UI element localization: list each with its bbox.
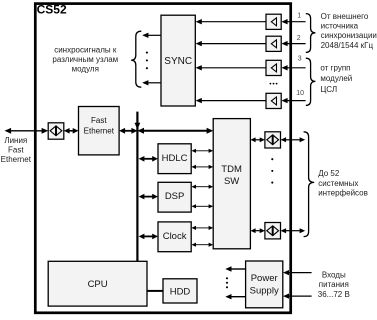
svg-text:До 52: До 52 <box>318 169 340 178</box>
block TDM SW <box>213 119 250 249</box>
brace external sync group 1-2 <box>306 14 316 53</box>
wire external sync line 3 <box>287 67 306 69</box>
svg-text:HDLC: HDLC <box>162 153 188 164</box>
svg-text:CS52: CS52 <box>37 2 67 16</box>
svg-text:HDD: HDD <box>170 286 191 297</box>
svg-text:Supply: Supply <box>250 285 279 296</box>
wire bus to DSP <box>143 196 153 198</box>
svg-text:синхронизации: синхронизации <box>321 31 377 40</box>
svg-text:DSP: DSP <box>165 191 185 202</box>
wire buffer 1 to SYNC <box>201 21 266 23</box>
svg-text:36...72 В: 36...72 В <box>318 290 350 299</box>
interface transceiver box bottom <box>265 223 281 239</box>
svg-text:модуля: модуля <box>72 64 99 73</box>
wire external sync line 1 <box>287 21 306 23</box>
svg-text:модулей: модулей <box>320 74 352 83</box>
svg-text:Входы: Входы <box>322 270 346 279</box>
wire SYNC output top <box>147 34 161 36</box>
svg-text:системных: системных <box>318 179 358 188</box>
brace system interfaces <box>304 132 315 237</box>
wire TDM SW to interface bottom <box>255 230 261 232</box>
sync input buffer box 2 <box>266 36 281 51</box>
brace sync outputs <box>131 31 141 87</box>
wire external sync line 10 <box>287 100 306 102</box>
wire TDM SW to interface top <box>255 139 261 141</box>
ellipsis dots SYNC outputs <box>146 52 148 54</box>
svg-text:синхросигналы к: синхросигналы к <box>54 46 117 55</box>
block HDD <box>163 279 197 303</box>
svg-text:10: 10 <box>296 90 304 97</box>
wire buffer 3 to SYNC <box>201 67 266 69</box>
ellipsis dots power outputs <box>226 277 228 279</box>
sync input buffer box 3 <box>266 60 281 75</box>
svg-text:Ethernet: Ethernet <box>1 155 32 164</box>
block Fast Ethernet <box>79 107 120 155</box>
wire power output bottom <box>231 296 246 298</box>
block CPU <box>48 261 147 306</box>
wire external sync line 2 <box>287 43 306 45</box>
wire bus to Clock <box>143 235 153 237</box>
wire buffer 4 to SYNC <box>201 100 266 102</box>
block Clock <box>158 222 191 252</box>
svg-text:интерфейсов: интерфейсов <box>318 189 368 198</box>
sync input buffer box 1 <box>266 14 281 29</box>
block DSP <box>158 182 191 212</box>
wire interface bottom external <box>285 230 301 232</box>
svg-text:Ethernet: Ethernet <box>84 126 115 135</box>
svg-text:3: 3 <box>298 56 302 63</box>
svg-text:от групп: от групп <box>320 64 350 73</box>
interface transceiver box top <box>265 132 281 148</box>
svg-text:SYNC: SYNC <box>164 56 192 67</box>
brace external sync group 3-10 <box>306 58 316 105</box>
module outer box CS52 <box>35 4 290 313</box>
wire Clock to TDM SW lower <box>195 244 210 246</box>
wire DSP to TDM SW upper <box>195 186 210 188</box>
wire power input bottom <box>288 295 312 297</box>
block Power Supply <box>246 261 283 308</box>
svg-text:2: 2 <box>297 35 301 42</box>
svg-text:Clock: Clock <box>163 231 187 242</box>
wire interface top external <box>285 139 301 141</box>
wire transceiver to Fast Ethernet <box>69 130 74 132</box>
wire CPU to HDD <box>147 290 163 292</box>
svg-text:2048/1544 кГц: 2048/1544 кГц <box>321 41 374 50</box>
svg-text:Power: Power <box>251 273 278 284</box>
bus down arrowhead <box>135 123 141 130</box>
block HDLC <box>158 144 191 174</box>
wire external Fast Ethernet line <box>10 130 43 132</box>
wire power output top <box>231 268 246 270</box>
wire Fast Ethernet to bus <box>124 130 132 132</box>
wire buffer 2 to SYNC <box>201 43 266 45</box>
svg-text:Линия: Линия <box>4 136 27 145</box>
bus vertical line <box>136 112 138 262</box>
svg-text:ЦСЛ: ЦСЛ <box>320 85 337 94</box>
transceiver box Fast Ethernet <box>48 123 64 139</box>
svg-text:1: 1 <box>297 12 301 19</box>
wire SYNC output bottom <box>147 82 161 84</box>
ellipsis dots between interfaces <box>271 158 273 160</box>
svg-text:Fast: Fast <box>8 145 24 154</box>
wire DSP to TDM SW lower <box>195 205 210 207</box>
ellipsis dots between sync lines 3 and 10 <box>270 83 272 85</box>
svg-text:источника: источника <box>321 22 359 31</box>
wire HDLC to TDM SW upper <box>195 150 210 152</box>
svg-text:SW: SW <box>224 176 239 187</box>
wire power input top <box>288 272 312 274</box>
svg-text:CPU: CPU <box>88 279 108 290</box>
wire Clock to TDM SW upper <box>195 227 210 229</box>
wire HDLC to TDM SW lower <box>195 166 210 168</box>
wire bus to TDM SW <box>143 130 208 132</box>
svg-text:Fast: Fast <box>91 116 107 125</box>
sync input buffer box 4 <box>266 93 281 108</box>
svg-text:TDM: TDM <box>221 164 242 175</box>
svg-text:различным узлам: различным узлам <box>52 55 118 64</box>
svg-text:питания: питания <box>319 280 349 289</box>
svg-text:От внешнего: От внешнего <box>321 12 369 21</box>
block SYNC <box>161 15 195 106</box>
wire bus to HDLC <box>143 158 153 160</box>
